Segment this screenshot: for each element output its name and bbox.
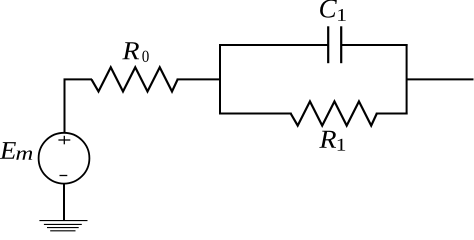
node left bar (219, 44, 221, 115)
capacitor C1 (328, 26, 341, 63)
wire (341, 44, 407, 46)
wire (219, 44, 328, 46)
plus sign (58, 136, 70, 145)
wire (63, 183, 65, 220)
wire (376, 113, 408, 115)
resistor R1 (291, 101, 377, 125)
label R0 (122, 42, 139, 59)
wire (219, 113, 292, 115)
resistor R0 (92, 67, 178, 91)
node right bar (406, 44, 408, 115)
source Em circle (39, 133, 90, 184)
wire (65, 79, 93, 134)
wire output (407, 78, 474, 80)
ground (39, 221, 87, 231)
minus sign (60, 175, 68, 177)
label C1 (320, 0, 337, 18)
label R1 (319, 131, 336, 148)
wire (177, 78, 221, 80)
label Em (0, 142, 16, 159)
